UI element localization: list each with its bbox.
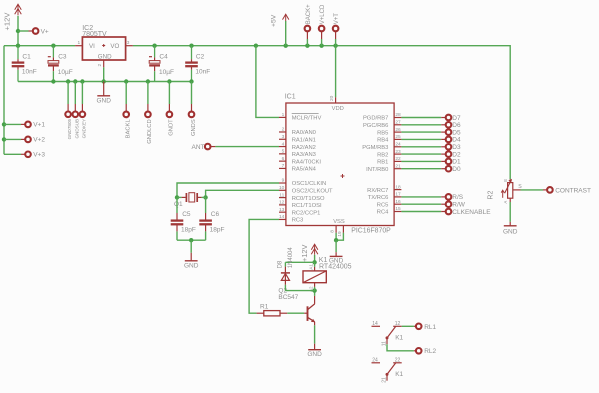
svg-text:GND: GND	[503, 228, 518, 235]
svg-text:3: 3	[127, 40, 130, 46]
svg-text:Q1: Q1	[174, 201, 183, 208]
svg-text:RB5: RB5	[377, 130, 388, 136]
svg-text:18pF: 18pF	[210, 226, 225, 233]
svg-text:D8: D8	[277, 260, 283, 268]
svg-text:21: 21	[395, 163, 401, 169]
svg-text:OSC1/CLKIN: OSC1/CLKIN	[292, 181, 326, 187]
svg-text:GNDLCD: GNDLCD	[147, 119, 153, 143]
svg-text:GND: GND	[98, 53, 112, 60]
svg-text:24: 24	[372, 357, 378, 363]
svg-text:RA3/AN3: RA3/AN3	[292, 152, 316, 158]
svg-text:RB4: RB4	[377, 138, 389, 144]
svg-text:V+T: V+T	[334, 13, 340, 25]
svg-text:+12V: +12V	[2, 12, 11, 31]
svg-text:21: 21	[381, 377, 387, 383]
svg-text:10nF: 10nF	[22, 68, 37, 75]
svg-text:D6: D6	[452, 122, 461, 129]
svg-text:18pF: 18pF	[181, 226, 196, 233]
svg-text:16: 16	[395, 199, 401, 205]
svg-text:10nF: 10nF	[195, 68, 210, 75]
svg-text:TX/RC6: TX/RC6	[368, 195, 389, 201]
svg-text:RC2/CCP1: RC2/CCP1	[292, 210, 321, 216]
svg-text:RA4/T0CKI: RA4/T0CKI	[292, 159, 322, 165]
svg-text:17: 17	[395, 192, 401, 198]
svg-text:V+LCD: V+LCD	[320, 4, 326, 24]
svg-text:24: 24	[395, 142, 401, 148]
svg-text:BACKL: BACKL	[126, 119, 132, 139]
svg-text:6: 6	[282, 156, 285, 162]
svg-text:14: 14	[279, 214, 285, 220]
svg-text:R/W: R/W	[452, 202, 466, 209]
svg-text:GNDT: GNDT	[169, 119, 175, 136]
svg-text:2: 2	[97, 64, 103, 67]
svg-text:12: 12	[395, 321, 401, 327]
svg-text:RB1: RB1	[377, 160, 388, 166]
svg-text:+12V: +12V	[300, 244, 309, 262]
svg-text:RA1/AN1: RA1/AN1	[292, 137, 316, 143]
svg-text:R2: R2	[487, 191, 494, 200]
svg-text:D7: D7	[452, 115, 461, 122]
svg-text:9: 9	[282, 178, 285, 184]
svg-text:GNDS: GNDS	[191, 119, 197, 136]
svg-text:PGM/RB3: PGM/RB3	[362, 145, 388, 151]
svg-text:K1: K1	[395, 335, 403, 342]
svg-text:C3: C3	[58, 53, 67, 60]
svg-text:1: 1	[282, 112, 285, 118]
svg-text:C2: C2	[196, 53, 205, 60]
svg-text:R1: R1	[260, 304, 269, 311]
svg-text:D3: D3	[452, 144, 461, 151]
svg-text:19: 19	[337, 231, 343, 237]
svg-text:RC0/T1OSO: RC0/T1OSO	[292, 196, 325, 202]
svg-text:2: 2	[282, 127, 285, 133]
svg-text:27: 27	[395, 120, 401, 126]
svg-text:RC4: RC4	[377, 210, 389, 216]
svg-text:V+2: V+2	[33, 137, 45, 144]
svg-text:V+1: V+1	[33, 122, 45, 129]
svg-text:V+: V+	[41, 28, 49, 35]
svg-text:CONTRAST: CONTRAST	[555, 187, 591, 194]
svg-text:RL1: RL1	[424, 324, 436, 331]
svg-text:VSS: VSS	[333, 219, 345, 225]
svg-text:C4: C4	[159, 53, 168, 60]
svg-text:GNDSUB: GNDSUB	[74, 119, 79, 139]
svg-text:11: 11	[279, 192, 284, 198]
svg-text:22: 22	[395, 156, 401, 162]
svg-text:10µF: 10µF	[159, 69, 174, 76]
svg-text:RC1/T1OSI: RC1/T1OSI	[292, 203, 322, 209]
svg-text:VDD: VDD	[332, 106, 344, 112]
svg-text:3: 3	[282, 134, 285, 140]
svg-text:D5: D5	[452, 129, 461, 136]
svg-text:18: 18	[395, 184, 401, 190]
svg-text:MCLR/THV: MCLR/THV	[292, 116, 322, 122]
svg-text:RA5/AN4: RA5/AN4	[292, 167, 317, 173]
svg-text:RL2: RL2	[424, 348, 436, 355]
svg-text:RT424005: RT424005	[319, 263, 352, 270]
svg-text:R/S: R/S	[452, 194, 464, 201]
svg-text:4: 4	[282, 141, 285, 147]
svg-text:7805TV: 7805TV	[82, 31, 107, 38]
svg-text:V+3: V+3	[33, 152, 45, 159]
svg-text:RA2/AN2: RA2/AN2	[292, 145, 316, 151]
svg-text:23: 23	[395, 149, 401, 155]
svg-text:D2: D2	[452, 151, 461, 158]
svg-text:CLKENABLE: CLKENABLE	[452, 209, 491, 216]
svg-text:C6: C6	[211, 211, 220, 218]
svg-text:K1: K1	[395, 371, 403, 378]
svg-text:BACK+: BACK+	[306, 4, 312, 24]
svg-text:8: 8	[330, 230, 336, 233]
svg-text:13: 13	[279, 207, 285, 213]
svg-text:12: 12	[279, 200, 285, 206]
svg-text:PGD/RB7: PGD/RB7	[363, 116, 388, 122]
svg-text:A1: A1	[309, 264, 314, 270]
svg-text:25: 25	[395, 134, 401, 140]
svg-text:INT/RB0: INT/RB0	[366, 167, 388, 173]
svg-text:ANT: ANT	[192, 144, 205, 151]
svg-text:20: 20	[329, 95, 335, 101]
svg-text:GNDKEY: GNDKEY	[81, 119, 86, 138]
svg-text:VI: VI	[89, 43, 95, 50]
svg-text:PGC/RB6: PGC/RB6	[363, 123, 388, 129]
svg-text:28: 28	[395, 112, 401, 118]
svg-text:1: 1	[78, 40, 81, 46]
svg-text:5: 5	[282, 149, 285, 155]
svg-text:RA0/AN0: RA0/AN0	[292, 130, 316, 136]
svg-text:RX/RC7: RX/RC7	[367, 188, 388, 194]
svg-text:OSC2/CLKOUT: OSC2/CLKOUT	[292, 189, 333, 195]
svg-text:RC5: RC5	[377, 202, 389, 208]
svg-text:RB2: RB2	[377, 152, 388, 158]
svg-text:GND: GND	[307, 351, 322, 358]
svg-text:VO: VO	[110, 43, 119, 50]
svg-text:GND7805: GND7805	[67, 118, 72, 139]
svg-text:C1: C1	[22, 53, 31, 60]
svg-text:GND: GND	[184, 262, 199, 269]
svg-text:1N4004: 1N4004	[288, 247, 294, 269]
svg-text:PIC16F870P: PIC16F870P	[351, 228, 391, 235]
svg-text:22: 22	[395, 357, 401, 363]
svg-text:C5: C5	[182, 211, 191, 218]
svg-text:BC547: BC547	[278, 294, 298, 301]
svg-text:A: A	[503, 201, 508, 204]
svg-text:IC1: IC1	[285, 94, 296, 101]
svg-text:15: 15	[395, 206, 401, 212]
svg-text:D0: D0	[452, 166, 461, 173]
svg-text:10: 10	[279, 185, 285, 191]
svg-text:GND: GND	[96, 98, 111, 105]
svg-text:D4: D4	[452, 137, 461, 144]
svg-text:7: 7	[282, 163, 285, 169]
svg-text:14: 14	[372, 321, 378, 327]
svg-text:10µF: 10µF	[58, 69, 73, 76]
svg-text:S: S	[518, 184, 522, 190]
svg-text:26: 26	[395, 127, 401, 133]
svg-text:D1: D1	[452, 159, 461, 166]
svg-text:+5V: +5V	[270, 14, 277, 27]
svg-text:RC3: RC3	[292, 218, 304, 224]
svg-text:E: E	[503, 179, 508, 182]
